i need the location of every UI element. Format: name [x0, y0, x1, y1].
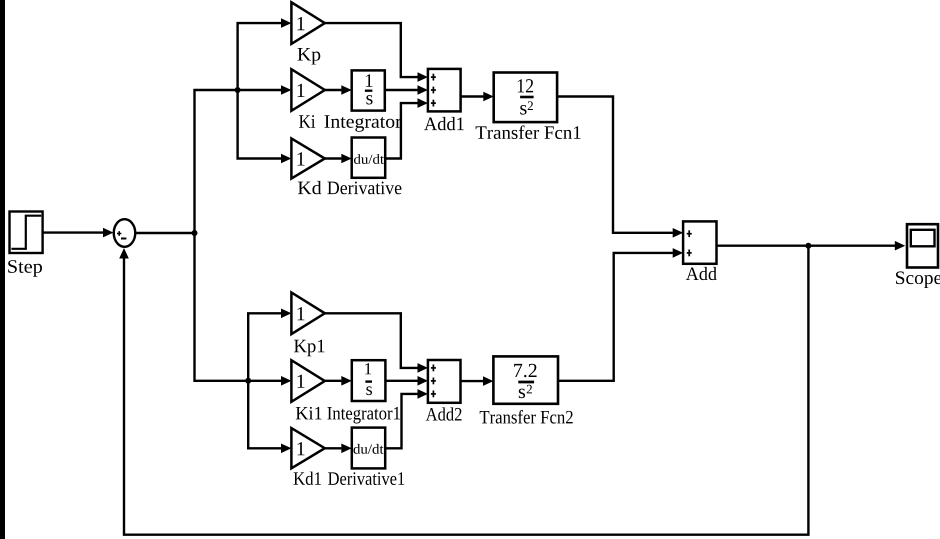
- Derivative du/dt: [354, 154, 384, 164]
- sum minus sign: [121, 238, 126, 240]
- arrowhead Add1 in2: [418, 85, 428, 95]
- gain value 1 of Ki: [297, 84, 304, 97]
- arrowhead into Sum: [103, 228, 113, 238]
- gain Kp: [291, 2, 324, 44]
- wire Transfer Fcn2 output to Add in2: [558, 253, 673, 381]
- wire Kd output to Derivative: [325, 157, 342, 159]
- left border bar: [0, 0, 5, 539]
- arrowhead Add in1: [673, 228, 683, 238]
- arrowhead into Integrator: [341, 85, 351, 95]
- Transfer Fcn1 denominator s^2: [520, 105, 526, 115]
- label Transfer Fcn1: [476, 125, 581, 139]
- gain value 1 of Ki1: [297, 375, 304, 388]
- block Step: [10, 212, 43, 254]
- wire Add output to Scope: [717, 244, 896, 246]
- block Add1: [428, 69, 461, 112]
- arrowhead Add2 in3: [418, 389, 428, 399]
- wire feedback loop: [124, 246, 808, 535]
- Add1 port plus signs: [432, 74, 434, 81]
- arrowhead into Transfer Fcn2: [483, 376, 493, 386]
- gain Kp1: [291, 293, 324, 335]
- gain Ki: [291, 69, 324, 111]
- arrowhead into Kd1: [281, 444, 291, 454]
- wire Add2 output to Transfer Fcn2: [461, 380, 484, 382]
- arrowhead Add2 in2: [418, 376, 428, 386]
- wire lower branch vertical Kp1 Kd1 rows: [248, 313, 281, 448]
- label Add1: [424, 117, 464, 130]
- wire Ki output to Integrator: [325, 89, 342, 91]
- arrowhead into Derivative1: [341, 444, 351, 454]
- label Derivative: [327, 182, 401, 195]
- Derivative1 du/dt: [353, 444, 383, 454]
- wire Derivative output to Add1 in3: [385, 103, 418, 158]
- wire Kp1 output to Add2 in1: [325, 313, 418, 368]
- wire Kd1 output to Derivative1: [325, 447, 342, 449]
- Integrator1 fraction 1/s: [365, 363, 371, 374]
- wire Ki1 output to Integrator1: [325, 380, 342, 382]
- gain value 1 of Kp: [297, 17, 304, 30]
- label Step: [8, 260, 42, 277]
- label Add2: [426, 407, 462, 420]
- label Kp: [297, 48, 320, 64]
- block Add2: [428, 360, 461, 403]
- label Kp1: [294, 340, 324, 357]
- Add2 port plus signs: [432, 365, 434, 372]
- block Derivative1: [352, 428, 385, 469]
- label Ki: [299, 115, 315, 128]
- arrowhead Add1 in1: [418, 72, 428, 82]
- gain Ki1: [291, 360, 324, 402]
- Transfer Fcn2 fraction bar: [518, 381, 534, 384]
- junction dot scope feedback: [805, 243, 811, 249]
- arrowhead into Derivative: [341, 154, 351, 164]
- Transfer Fcn1 fraction bar: [520, 96, 534, 99]
- arrowhead into Kd: [281, 154, 291, 164]
- gain value 1 of Kp1: [297, 307, 304, 320]
- wire Add1 output to Transfer Fcn1: [461, 95, 484, 97]
- block Derivative: [352, 138, 386, 178]
- label Ki1: [296, 407, 322, 420]
- arrowhead feedback into Sum bottom: [119, 248, 129, 259]
- arrowhead into Scope: [895, 241, 905, 251]
- block Scope: [907, 224, 938, 267]
- wire Integrator output to Add1 in2: [385, 89, 418, 91]
- block Add: [683, 221, 716, 263]
- Add port plus signs: [688, 230, 690, 237]
- Transfer Fcn1 numerator 12: [518, 79, 533, 92]
- wire Transfer Fcn1 output to Add in1: [557, 97, 673, 233]
- label Derivative1: [328, 472, 404, 485]
- gain value 1 of Kd1: [297, 442, 304, 455]
- junction dot sum output: [192, 230, 198, 236]
- sum plus sign: [118, 231, 120, 236]
- block Transfer Fcn2: [493, 356, 558, 403]
- Integrator fraction 1/s: [366, 74, 373, 87]
- arrowhead into Kp: [281, 18, 291, 28]
- wire Kp output to Add1 in1: [325, 23, 418, 77]
- arrowhead Add in2: [673, 248, 683, 258]
- arrowhead Add1 in3: [418, 98, 428, 108]
- arrowhead into Kp1: [281, 309, 291, 319]
- label Integrator1: [327, 407, 399, 424]
- Transfer Fcn2 denominator s^2: [519, 389, 525, 399]
- arrowhead into Ki1: [281, 376, 291, 386]
- gain Kd1: [291, 428, 324, 468]
- wire Sum output: [135, 232, 194, 234]
- block Integrator1: [352, 360, 386, 401]
- arrowhead into Transfer Fcn1: [483, 92, 493, 102]
- wire upper branch vertical Kp Kd rows: [238, 23, 282, 158]
- Transfer Fcn2 numerator 7.2: [514, 364, 536, 378]
- label Add: [686, 267, 717, 280]
- wire Integrator1 output to Add2 in2: [385, 380, 418, 382]
- block Integrator: [352, 70, 385, 110]
- junction dot upper branch: [235, 87, 241, 93]
- block Transfer Fcn1: [494, 73, 557, 123]
- sum junction Sum: [114, 219, 136, 247]
- wire Step to Sum: [43, 231, 104, 233]
- wire Derivative1 output to Add2 in3: [385, 394, 418, 448]
- wire trunk vertical with upper and lower rails: [195, 90, 282, 381]
- label Transfer Fcn2: [480, 410, 573, 424]
- arrowhead Add2 in1: [418, 363, 428, 373]
- gain Kd: [291, 138, 324, 178]
- label Kd: [298, 181, 322, 194]
- label Kd1: [294, 472, 321, 485]
- label Scope: [896, 271, 940, 288]
- gain value 1 of Kd: [297, 152, 304, 165]
- arrowhead into Ki: [281, 85, 291, 95]
- junction dot lower branch: [245, 378, 251, 384]
- arrowhead into Integrator1: [341, 376, 351, 386]
- label Integrator: [325, 115, 402, 132]
